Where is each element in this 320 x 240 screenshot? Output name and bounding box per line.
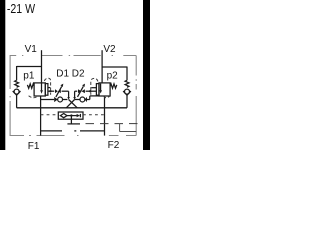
- svg-text:V1: V1: [25, 44, 38, 55]
- svg-text:F2: F2: [108, 140, 120, 150]
- svg-text:p1: p1: [23, 71, 35, 82]
- svg-text:V2: V2: [103, 44, 116, 55]
- svg-text:-21 W: -21 W: [7, 1, 36, 16]
- svg-text:p2: p2: [107, 71, 119, 82]
- svg-text:D2: D2: [72, 69, 85, 80]
- svg-text:F1: F1: [28, 141, 40, 150]
- svg-text:D1: D1: [56, 69, 69, 80]
